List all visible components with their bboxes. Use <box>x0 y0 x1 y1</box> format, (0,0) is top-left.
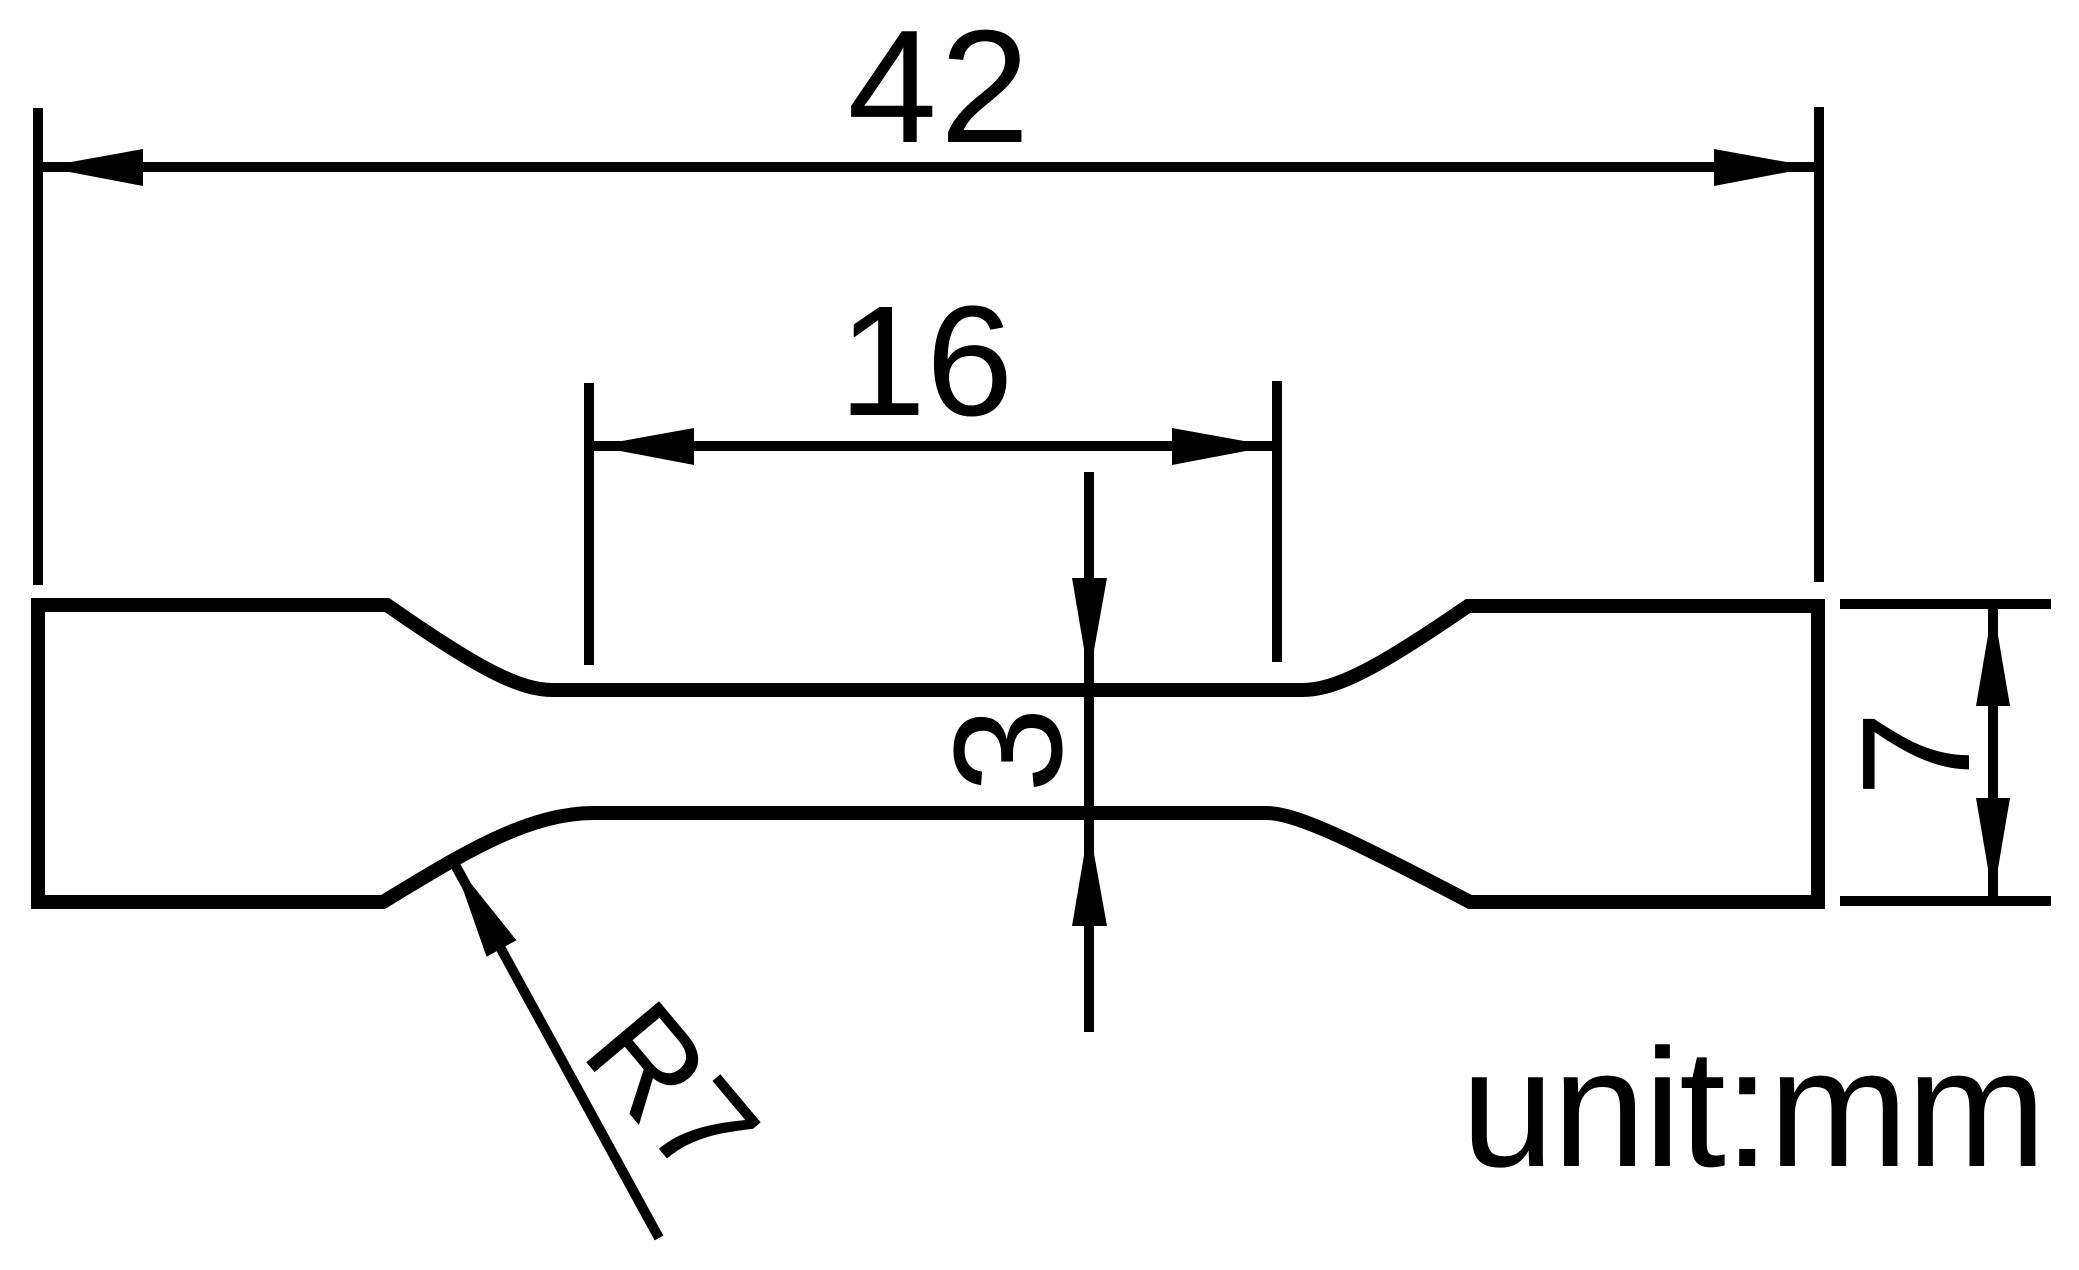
svg-text:unit:mm: unit:mm <box>1461 1014 2044 1202</box>
specimen outline (dog-bone tensile bar) <box>38 605 1818 902</box>
svg-text:16: 16 <box>839 274 1014 449</box>
dimension line 7 <box>1988 606 1998 898</box>
arrow 7 down <box>1976 798 2010 898</box>
svg-text:42: 42 <box>847 0 1032 177</box>
extension line right (42) <box>1814 107 1824 582</box>
extension line right (16) <box>1272 381 1282 662</box>
dimension line 16 <box>594 441 1272 451</box>
svg-text:7: 7 <box>1830 711 2002 797</box>
extension line left (42) <box>33 108 43 585</box>
arrow 42 left <box>43 149 143 186</box>
dimension 3 line <box>1084 472 1094 1032</box>
arrow 3 down <box>1072 578 1107 678</box>
extension line bottom (7) <box>1840 896 2051 906</box>
arrow 7 up <box>1976 606 2010 706</box>
arrow 16 left <box>594 428 694 465</box>
dimension line 42 <box>43 162 1814 172</box>
extension line top (7) <box>1840 599 2051 609</box>
leader line R7 <box>453 861 659 1238</box>
arrow 42 right <box>1714 149 1814 186</box>
arrow 3 up <box>1072 826 1107 926</box>
extension line left (16) <box>584 383 594 665</box>
svg-text:3: 3 <box>922 707 1094 793</box>
arrow R7 <box>453 861 516 957</box>
arrow 16 right <box>1172 428 1272 465</box>
